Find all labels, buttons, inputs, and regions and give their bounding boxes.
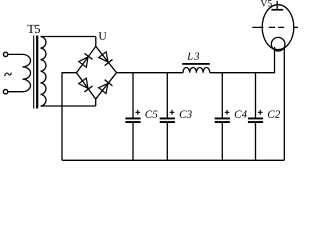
- wire: C2 bottom lead: [255, 123, 257, 160]
- wire: C5 top lead: [132, 73, 134, 118]
- transformer T5 secondary winding: [41, 37, 96, 107]
- inductor label L3: [187, 53, 199, 60]
- transformer T5 label: [27, 25, 40, 33]
- transformer core line thin: [33, 36, 35, 109]
- diode D3 lower-left: [79, 78, 93, 92]
- tube V5 label: [261, 0, 272, 6]
- diode D2 upper-right: [99, 52, 113, 66]
- capacitor C5: [125, 73, 157, 161]
- wire: C4 bottom lead: [221, 123, 223, 160]
- wire: secondary top to bridge top vertex: [95, 37, 97, 47]
- wire: top rail left of L3: [117, 72, 184, 74]
- bridge rectifier U diamond: [77, 46, 117, 99]
- wire: C4 top lead: [221, 73, 223, 118]
- diode D4 lower-right: [99, 80, 113, 94]
- C2 polarity plus: [258, 110, 263, 115]
- tube V5 filament circle: [271, 37, 285, 51]
- C3 bottom plate: [160, 121, 175, 123]
- bridge rectifier U label: [99, 32, 107, 40]
- value label C4: [235, 111, 247, 118]
- wire: bottom rail: [62, 159, 284, 161]
- wire: bridge left vertex to negative rail: [62, 73, 77, 161]
- C5 bottom plate: [125, 121, 140, 123]
- wire: top rail right of L3: [210, 47, 275, 73]
- C5 top plate: [125, 118, 140, 120]
- C3 top plate: [160, 118, 175, 120]
- C4 polarity plus: [225, 110, 230, 115]
- value label C3: [180, 111, 192, 118]
- inductor L3 core bar: [182, 63, 210, 65]
- AC source terminal top: [3, 52, 7, 56]
- wire: C5 bottom lead: [132, 123, 134, 160]
- transformer T5 primary winding: [8, 54, 31, 91]
- tube V5 grid dashed line with leads: [252, 26, 298, 28]
- wire: C2 top lead: [255, 73, 257, 118]
- C2 top plate: [248, 118, 263, 120]
- wire: C3 top lead: [166, 73, 168, 118]
- inductor L3 winding: [183, 68, 210, 73]
- capacitor C2: [248, 73, 280, 161]
- C5 polarity plus: [135, 110, 140, 115]
- capacitor C3: [160, 73, 192, 161]
- wire: bridge bottom vertex to secondary bottom: [95, 99, 97, 106]
- tube V5 envelope: [262, 5, 294, 50]
- tube V5 anode bar: [271, 9, 283, 11]
- diode D1 upper-left: [79, 53, 93, 67]
- AC source terminal bottom: [3, 90, 7, 94]
- C3 polarity plus: [170, 110, 175, 115]
- C2 bottom plate: [248, 121, 263, 123]
- capacitor C4: [215, 73, 247, 161]
- transformer core line thick: [36, 36, 38, 109]
- value label C2: [268, 111, 280, 118]
- C4 top plate: [215, 118, 230, 120]
- wire: C3 bottom lead: [166, 123, 168, 160]
- AC tilde symbol: [5, 73, 12, 77]
- wire: anode lead: [276, 1, 278, 9]
- value label C5: [145, 111, 157, 118]
- wire: filament right lead to bottom rail: [283, 47, 285, 160]
- C4 bottom plate: [215, 121, 230, 123]
